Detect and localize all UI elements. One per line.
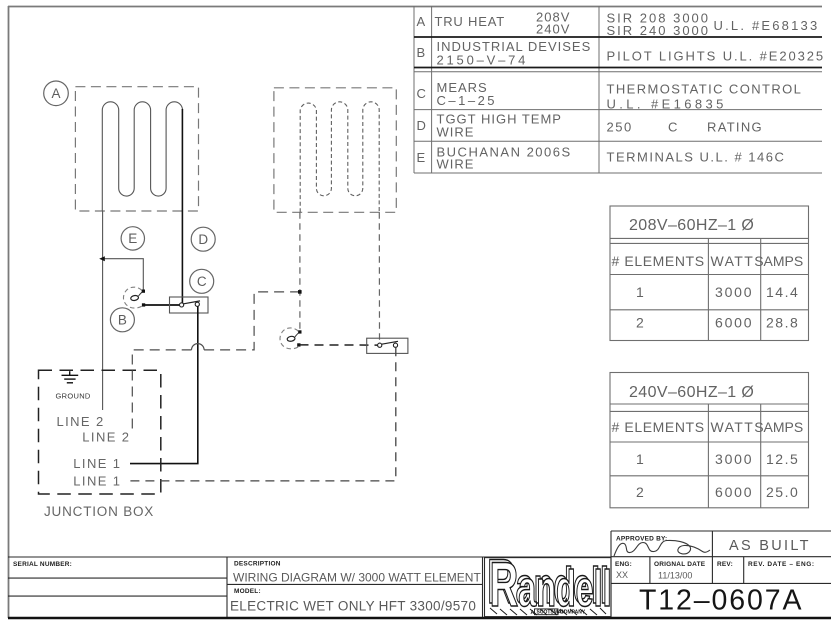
svg-text:AS BUILT: AS BUILT: [729, 538, 811, 554]
heating element 1 coil: [102, 102, 182, 211]
svg-text:2150–V–74: 2150–V–74: [437, 53, 529, 68]
component reference table (rows A-E): [414, 6, 822, 173]
svg-text:B: B: [417, 45, 427, 60]
wire E branch to pilot light: [103, 259, 144, 290]
svg-text:ELECTRIC WET ONLY HFT 3300: ELECTRIC WET ONLY HFT 3300/9570: [230, 599, 476, 614]
svg-text:GROUND: GROUND: [56, 392, 91, 401]
svg-text:1: 1: [636, 284, 644, 300]
svg-text:2: 2: [636, 315, 644, 331]
svg-text:WIRING DIAGRAM W/ 3000 WAT: WIRING DIAGRAM W/ 3000 WATT ELEMENT: [233, 571, 481, 585]
dashed wire pilot 2 to thermostat 2: [300, 344, 378, 346]
svg-text:REV:: REV:: [717, 561, 733, 568]
svg-text:LINE 2: LINE 2: [82, 429, 130, 444]
svg-text:REV. DATE – ENG:: REV. DATE – ENG:: [748, 561, 815, 568]
element 2 left lead (dashed) down to pilot 2: [299, 212, 301, 330]
thermostat C box: [170, 297, 209, 313]
junction box (dashed): [39, 370, 161, 494]
junction node on element 2 lead: [298, 290, 302, 294]
heating element 2 coil (dashed): [300, 102, 379, 213]
svg-text:2: 2: [636, 484, 644, 500]
svg-text:E: E: [417, 150, 427, 165]
svg-text:D: D: [417, 118, 427, 133]
heating element A enclosure (dashed box): [75, 87, 198, 211]
thermostat 2 switch arm: [382, 341, 398, 344]
svg-text:A: A: [51, 86, 60, 101]
svg-text:WIRE: WIRE: [437, 157, 475, 172]
svg-text:COMPANY: COMPANY: [560, 610, 586, 616]
svg-text:DESCRIPTION: DESCRIPTION: [234, 561, 281, 568]
svg-text:# ELEMENTS: # ELEMENTS: [612, 419, 705, 435]
thermostat 2 contacts: [378, 343, 382, 347]
pilot light B: [123, 287, 145, 308]
svg-text:E: E: [128, 231, 137, 246]
svg-text:3000: 3000: [715, 451, 753, 467]
svg-text:# ELEMENTS: # ELEMENTS: [612, 253, 705, 269]
svg-text:JUNCTION BOX: JUNCTION BOX: [44, 504, 154, 519]
svg-text:208V–60HZ–1 Ø: 208V–60HZ–1 Ø: [629, 217, 754, 234]
svg-text:28.8: 28.8: [766, 315, 799, 331]
thermostat C contacts: [180, 303, 184, 307]
svg-text:3000: 3000: [715, 284, 753, 300]
pilot light 2: [280, 328, 302, 349]
svg-text:LINE 2: LINE 2: [57, 414, 105, 429]
dashed wire: LINE 2 to element 2 (L-path): [132, 292, 299, 429]
svg-text:SERIAL NUMBER:: SERIAL NUMBER:: [13, 561, 72, 568]
svg-text:AMPS: AMPS: [764, 419, 804, 435]
ground symbol: [62, 371, 79, 383]
wire hop over D wire: [192, 344, 205, 350]
svg-text:14.4: 14.4: [766, 284, 799, 300]
svg-text:12.5: 12.5: [766, 451, 799, 467]
dashed wire: thermostat 2 down to LINE 1: [130, 347, 396, 481]
svg-text:LINE 1: LINE 1: [73, 456, 121, 471]
svg-text:U.L. #E68133: U.L. #E68133: [714, 18, 820, 33]
svg-text:XX: XX: [616, 570, 628, 580]
svg-text:ENG:: ENG:: [615, 561, 632, 568]
svg-text:ORIGNAL DATE: ORIGNAL DATE: [654, 561, 706, 568]
svg-text:25.0: 25.0: [766, 484, 799, 500]
svg-text:WATTS: WATTS: [711, 419, 765, 435]
svg-text:11/13/00: 11/13/00: [658, 571, 692, 581]
svg-text:A: A: [417, 14, 427, 29]
svg-text:THERMOSTATIC CONTROL: THERMOSTATIC CONTROL: [607, 82, 803, 97]
svg-text:6000: 6000: [715, 484, 753, 500]
svg-text:240V–60HZ–1 Ø: 240V–60HZ–1 Ø: [629, 384, 754, 401]
wire pilot B to thermostat C: [144, 304, 182, 306]
svg-text:A: A: [531, 610, 535, 616]
svg-text:WATTS: WATTS: [711, 253, 765, 269]
wire D: element A right lead down to thermostat C: [181, 109, 183, 304]
svg-text:C: C: [197, 274, 207, 289]
svg-text:TERMINALS U.L. # 146C: TERMINALS U.L. # 146C: [607, 150, 786, 165]
svg-text:MODEL:: MODEL:: [234, 588, 261, 595]
svg-text:WIRE: WIRE: [437, 125, 475, 140]
svg-text:C: C: [417, 86, 427, 101]
wire E: element A left lead down to LINE 2: [102, 211, 104, 410]
svg-text:LINE 1: LINE 1: [73, 473, 121, 488]
ratings table 240V: [610, 373, 809, 508]
junction tick at node E: [99, 256, 105, 261]
label circle A: [44, 81, 216, 332]
thermostat 2 box: [367, 338, 408, 353]
svg-text:1: 1: [636, 451, 644, 467]
title block frame: [8, 531, 831, 617]
svg-text:U.L. #E16835: U.L. #E16835: [607, 97, 727, 112]
ratings table 208V: [610, 206, 809, 341]
svg-text:AMPS: AMPS: [764, 253, 804, 269]
svg-text:RATING: RATING: [707, 120, 763, 135]
svg-text:T12–0607A: T12–0607A: [639, 585, 803, 617]
svg-text:D: D: [198, 232, 208, 247]
svg-text:240V: 240V: [536, 22, 570, 37]
thermostat C switch arm: [184, 301, 200, 304]
wire: thermostat C to LINE 1: [130, 306, 198, 463]
svg-text:B: B: [118, 313, 127, 328]
svg-text:250: 250: [607, 120, 633, 135]
heating element 2 enclosure (dashed box): [274, 88, 396, 213]
svg-text:SIR 240 3000: SIR 240 3000: [607, 23, 711, 38]
svg-text:PILOT LIGHTS U.L. #E20325: PILOT LIGHTS U.L. #E20325: [607, 49, 826, 64]
svg-text:APPROVED BY:: APPROVED BY:: [616, 536, 667, 543]
Randell logo: [487, 547, 612, 621]
svg-text:C–1–25: C–1–25: [437, 93, 498, 108]
svg-text:C: C: [668, 120, 678, 135]
svg-text:TRU HEAT: TRU HEAT: [435, 14, 505, 29]
svg-text:6000: 6000: [715, 315, 753, 331]
approval signature: [614, 540, 710, 556]
element 2 right lead (dashed) down to thermostat 2: [378, 212, 380, 342]
